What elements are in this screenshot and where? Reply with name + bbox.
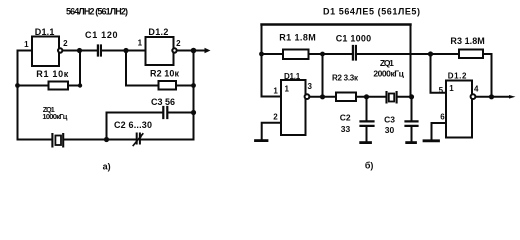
svg-text:2: 2 bbox=[176, 39, 181, 48]
svg-text:D1.1: D1.1 bbox=[284, 72, 301, 81]
svg-text:C3: C3 bbox=[384, 115, 395, 125]
svg-text:R2 3.3к: R2 3.3к bbox=[332, 74, 359, 83]
svg-text:C3 56: C3 56 bbox=[151, 97, 175, 107]
svg-text:30: 30 bbox=[385, 125, 395, 135]
svg-text:2: 2 bbox=[63, 39, 68, 48]
svg-text:D1 564ЛЕ5 (561ЛЕ5): D1 564ЛЕ5 (561ЛЕ5) bbox=[323, 7, 420, 17]
svg-text:1: 1 bbox=[24, 40, 29, 49]
svg-text:D1.1: D1.1 bbox=[35, 27, 55, 37]
svg-text:C1 1000: C1 1000 bbox=[336, 34, 371, 44]
svg-text:б): б) bbox=[365, 161, 374, 171]
svg-text:1000кГц: 1000кГц bbox=[42, 112, 67, 121]
svg-text:R1 10к: R1 10к bbox=[36, 69, 68, 79]
svg-text:1: 1 bbox=[138, 39, 143, 48]
svg-text:D1.2: D1.2 bbox=[448, 72, 467, 81]
svg-text:5: 5 bbox=[439, 86, 444, 95]
svg-text:1: 1 bbox=[285, 85, 290, 94]
svg-text:C1 120: C1 120 bbox=[85, 30, 118, 40]
svg-text:1: 1 bbox=[273, 87, 278, 96]
svg-text:ZQ1: ZQ1 bbox=[380, 58, 394, 68]
svg-text:2: 2 bbox=[273, 113, 278, 122]
svg-text:1: 1 bbox=[449, 84, 454, 93]
svg-text:6: 6 bbox=[440, 113, 445, 122]
svg-text:C2 6...30: C2 6...30 bbox=[114, 120, 152, 130]
svg-text:D1.2: D1.2 bbox=[148, 27, 168, 37]
svg-text:R1 1.8M: R1 1.8M bbox=[279, 33, 316, 43]
svg-text:а): а) bbox=[103, 162, 111, 172]
svg-text:33: 33 bbox=[341, 124, 351, 134]
svg-text:R2 10к: R2 10к bbox=[150, 69, 179, 79]
svg-text:R3 1.8M: R3 1.8M bbox=[450, 36, 484, 46]
svg-text:564ЛН2 (561ЛН2): 564ЛН2 (561ЛН2) bbox=[66, 7, 128, 17]
svg-text:2000кГц: 2000кГц bbox=[373, 69, 404, 79]
svg-text:4: 4 bbox=[474, 85, 479, 94]
svg-text:3: 3 bbox=[307, 82, 312, 91]
svg-text:C2: C2 bbox=[340, 113, 351, 123]
